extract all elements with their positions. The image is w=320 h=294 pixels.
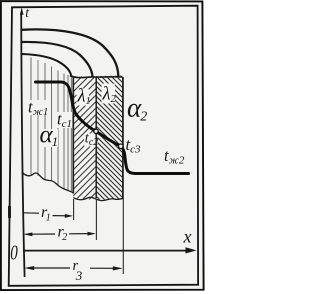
rim arc outer (r3) bbox=[22, 29, 118, 76]
temperature curve bbox=[36, 82, 189, 174]
photo background bbox=[0, 0, 210, 294]
r3 label bbox=[73, 258, 83, 283]
svg-text:0: 0 bbox=[10, 241, 18, 264]
wall torn bottom edge bbox=[73, 197, 123, 200]
fluid torn bottom edge bbox=[22, 172, 74, 193]
dimension line r3 bbox=[32, 267, 114, 269]
node t_c3 bbox=[119, 144, 124, 149]
t axis arrowhead bbox=[20, 7, 24, 15]
x axis bbox=[23, 250, 187, 252]
r2 left arrowhead bbox=[23, 232, 32, 236]
extension line r2 bbox=[95, 199, 97, 240]
rim arc inner (r1) bbox=[22, 54, 71, 77]
rim arc middle (r2) bbox=[22, 42, 93, 77]
svg-text:3: 3 bbox=[75, 268, 83, 283]
fluid region vertical hatch (alpha1 zone) bbox=[31, 58, 71, 193]
x axis arrowhead bbox=[186, 247, 197, 253]
dimension line r1 bbox=[23, 213, 69, 216]
r2 right arrowhead bbox=[88, 232, 96, 236]
extension line r3 bbox=[122, 199, 124, 274]
lambda1 layer hatch (/) bbox=[0, 77, 219, 200]
label halos in hatched zones bbox=[77, 84, 116, 147]
r3 left arrowhead bbox=[24, 266, 34, 270]
wall face top edge bbox=[70, 76, 123, 78]
border smudge bbox=[8, 206, 11, 219]
layer boundary r3 bbox=[122, 77, 124, 199]
lambda2 layer hatch (\) bbox=[96, 51, 123, 223]
layer boundary r2 bbox=[95, 78, 97, 199]
layer boundary r1 bbox=[72, 77, 74, 194]
r1 right arrowhead bbox=[65, 214, 73, 218]
t axis bbox=[21, 13, 24, 277]
label halos in fluid zone bbox=[28, 100, 72, 147]
svg-text:x: x bbox=[183, 227, 192, 247]
r3 right arrowhead bbox=[113, 266, 123, 270]
outer photo border bbox=[1, 1, 204, 290]
extension line r1 bbox=[73, 199, 75, 220]
inner figure frame bbox=[9, 6, 198, 286]
dimension line r2 bbox=[31, 233, 89, 236]
node t_c2 bbox=[94, 129, 98, 133]
